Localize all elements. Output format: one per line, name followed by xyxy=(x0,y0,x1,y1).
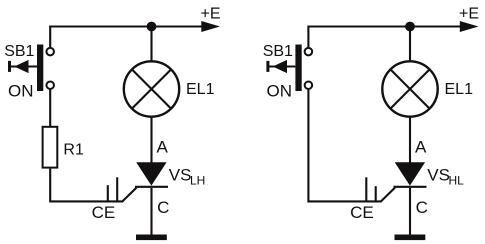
svg-text:CE: CE xyxy=(350,203,374,222)
wire: lamp bottom to thyristor anode (right) xyxy=(409,117,411,163)
svg-text:VS: VS xyxy=(427,165,450,184)
svg-text:VS: VS xyxy=(169,165,192,184)
thyristor VS_LH: cathode bar xyxy=(135,186,168,188)
wire: button bottom terminal to resistor R1 xyxy=(49,89,51,127)
thyristor VS_LH: triangle xyxy=(136,162,166,185)
svg-text:ON: ON xyxy=(267,82,293,101)
lamp EL1 (left): bulb circle xyxy=(124,61,179,116)
pushbutton SB1 (right): actuator end bar xyxy=(266,61,269,72)
wire: junction dot down to lamp (left) xyxy=(150,27,152,63)
svg-text:EL1: EL1 xyxy=(186,81,215,98)
+E supply arrowhead (right) xyxy=(460,21,479,32)
lamp EL1 (left): X cross xyxy=(132,69,171,108)
svg-text:ON: ON xyxy=(8,82,34,101)
pushbutton SB1 (left): moving contact bar xyxy=(37,45,43,92)
lamp EL1 (right): X cross xyxy=(390,69,429,108)
control pulse tick short (LH edge, left) xyxy=(107,185,109,202)
thyristor VS_HL: triangle xyxy=(395,162,425,185)
svg-text:C: C xyxy=(157,198,169,217)
svg-text:EL1: EL1 xyxy=(445,81,474,98)
wire: junction dot down to lamp (right) xyxy=(409,27,411,63)
pushbutton SB1 (left): bottom terminal circle xyxy=(46,81,54,89)
pushbutton SB1 (left): actuator shaft xyxy=(10,65,38,67)
svg-text:C: C xyxy=(416,198,428,217)
pushbutton SB1 (right): actuator arrowhead xyxy=(273,60,287,73)
svg-text:SB1: SB1 xyxy=(263,43,293,60)
pushbutton SB1 (left): top terminal circle xyxy=(46,48,54,56)
wire: lamp bottom to thyristor anode (left) xyxy=(150,117,152,163)
wire: cathode to ground (right) xyxy=(409,188,411,235)
svg-text:R1: R1 xyxy=(63,142,84,159)
lamp EL1 (right): bulb circle xyxy=(382,61,437,116)
node: junction dot (left rail / lamp branch) xyxy=(147,22,157,32)
control pulse tick short (HL edge, right) xyxy=(375,186,377,202)
svg-text:CE: CE xyxy=(92,203,116,222)
pushbutton SB1 (right): moving contact bar xyxy=(295,45,301,92)
thyristor VS_HL: cathode bar xyxy=(394,186,427,188)
control pulse tick tall (HL edge, right) xyxy=(365,177,367,202)
svg-text:A: A xyxy=(157,138,169,157)
svg-text:+E: +E xyxy=(459,5,479,22)
pushbutton SB1 (left): actuator end bar xyxy=(8,61,11,72)
wire: gate diagonal to cathode (left) xyxy=(122,188,137,202)
svg-text:LH: LH xyxy=(190,174,205,188)
node: junction dot (right rail / lamp branch) xyxy=(405,22,415,32)
ground bar (left) xyxy=(136,235,167,241)
control pulse tick tall (LH edge, left) xyxy=(116,177,118,202)
wire: top +E rail (left circuit) xyxy=(50,27,206,48)
wire: top +E rail (right circuit) xyxy=(308,27,464,48)
pushbutton SB1 (right): bottom terminal circle xyxy=(305,81,313,89)
pushbutton SB1 (right): top terminal circle xyxy=(305,48,313,56)
ground bar (right) xyxy=(395,235,426,241)
wire: button bottom terminal down and right to gate (right) xyxy=(308,89,380,201)
pushbutton SB1 (left): actuator arrowhead xyxy=(14,60,28,73)
wire: cathode to ground (left) xyxy=(150,188,152,235)
pushbutton SB1 (right): actuator shaft xyxy=(268,65,296,67)
+E supply arrowhead (left) xyxy=(201,21,220,32)
svg-text:+E: +E xyxy=(201,5,221,22)
svg-text:SB1: SB1 xyxy=(4,43,34,60)
svg-text:A: A xyxy=(415,138,427,157)
wire: gate diagonal to cathode (right) xyxy=(380,188,395,202)
resistor R1 body xyxy=(43,127,58,168)
wire: resistor bottom down and right to gate (left) xyxy=(50,169,122,202)
svg-text:HL: HL xyxy=(449,174,465,188)
